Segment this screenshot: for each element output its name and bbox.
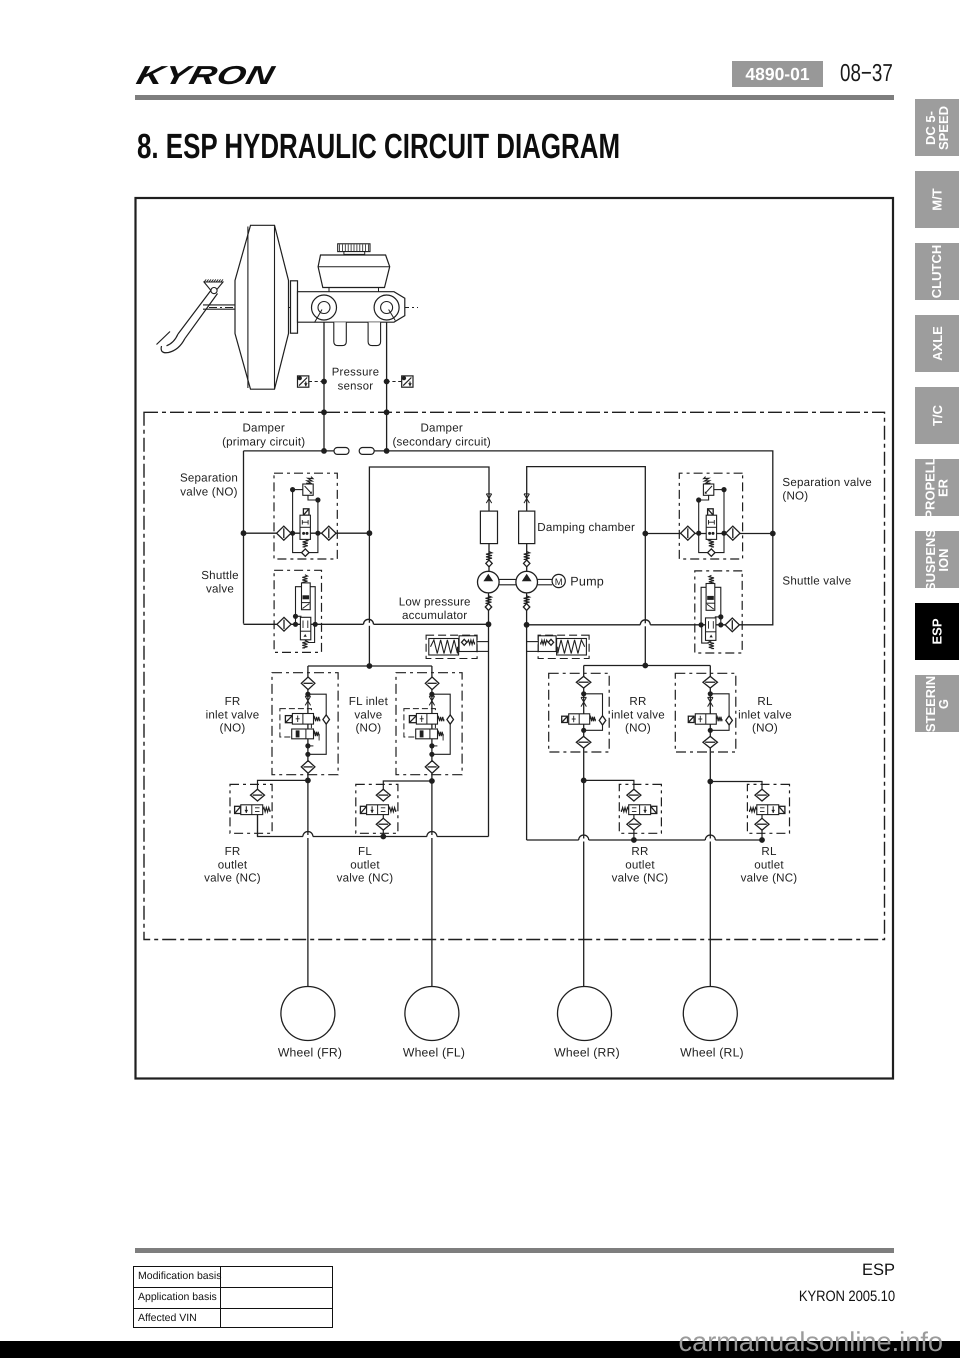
side tab AXLE bbox=[915, 315, 959, 372]
shuttle valve left bbox=[274, 570, 321, 652]
junction: right shuttle to suction bbox=[524, 622, 530, 628]
accumulator stubs bbox=[527, 641, 539, 643]
wire: left column bbox=[243, 451, 245, 624]
junction dots bbox=[721, 487, 726, 492]
junction dots bbox=[429, 692, 434, 697]
svg-text:inlet valve: inlet valve bbox=[738, 708, 792, 721]
relief valve bbox=[303, 484, 313, 495]
bypass wire bbox=[710, 694, 729, 731]
inlet valve dashed box bbox=[272, 673, 338, 775]
wire: left sep to damping chamber 1 bbox=[369, 467, 489, 533]
relief spring bbox=[306, 476, 313, 485]
HCU dashed enclosure bbox=[144, 412, 885, 939]
lower valve spring bbox=[438, 732, 444, 736]
side tab M/T bbox=[915, 171, 959, 228]
bottom bypass loop bbox=[699, 533, 724, 552]
accumulator piston bbox=[538, 636, 556, 652]
valve spring bbox=[716, 717, 722, 721]
valve body bbox=[569, 714, 590, 724]
brake pedal bbox=[178, 291, 218, 339]
bypass H wires bbox=[296, 587, 302, 625]
left bypass wire bbox=[723, 490, 725, 534]
pump 1 bbox=[478, 571, 500, 593]
svg-text:outlet: outlet bbox=[754, 858, 784, 871]
wire: FL main line bbox=[431, 666, 433, 987]
top filter diamond bbox=[576, 676, 591, 688]
upper valve body bbox=[416, 714, 437, 725]
wire: FR outlet branch bbox=[258, 780, 308, 789]
accumulator dashed box bbox=[426, 635, 477, 658]
lower valve body bbox=[292, 729, 314, 739]
svg-text:Shuttle valve: Shuttle valve bbox=[782, 575, 851, 588]
svg-text:Low pressure: Low pressure bbox=[399, 596, 471, 609]
bypass check diamond bbox=[726, 716, 733, 725]
wire: sensor right dashed stub bbox=[387, 381, 402, 383]
page number 08-37 bbox=[840, 60, 893, 87]
bypass check diamond bbox=[323, 715, 330, 724]
solenoid tab bbox=[708, 509, 714, 515]
top filter diamond bbox=[251, 789, 265, 801]
right bypass wire bbox=[317, 500, 319, 533]
left bypass wire bbox=[292, 490, 294, 534]
svg-text:M: M bbox=[555, 577, 563, 588]
svg-text:RR: RR bbox=[629, 695, 646, 708]
footer ESP label bbox=[695, 1261, 895, 1280]
filter diamond bbox=[725, 618, 739, 632]
relief valve bbox=[703, 484, 713, 495]
svg-text:(NO): (NO) bbox=[782, 490, 808, 503]
accumulator stubs bbox=[477, 641, 489, 643]
low pressure accumulator right bbox=[527, 635, 589, 658]
junction: primary damper bbox=[321, 448, 327, 454]
svg-text:Damping chamber: Damping chamber bbox=[537, 521, 635, 534]
bypass check diamond bbox=[447, 715, 454, 724]
junction: RR outlet to return bbox=[631, 837, 637, 843]
junction: primary sensor tee bbox=[321, 379, 327, 385]
lower valve spring bbox=[314, 732, 320, 736]
valve solenoid bbox=[651, 806, 657, 813]
wire: left shuttle line bbox=[244, 623, 489, 625]
valve solenoid bbox=[235, 806, 241, 813]
svg-text:RL: RL bbox=[761, 845, 777, 858]
separation valve dashed box bbox=[679, 473, 742, 559]
outlet valve dashed box bbox=[619, 784, 661, 833]
title bbox=[137, 129, 620, 164]
wire: mid vertical to front feed bbox=[368, 533, 370, 666]
svg-text:valve: valve bbox=[354, 708, 382, 721]
svg-text:Separation valve: Separation valve bbox=[782, 476, 872, 489]
svg-text:sensor: sensor bbox=[338, 381, 374, 393]
svg-text:inlet valve: inlet valve bbox=[206, 708, 260, 721]
damping chamber 2 bbox=[519, 511, 535, 543]
valve solenoid bbox=[360, 806, 366, 813]
svg-text:valve: valve bbox=[206, 583, 234, 596]
wire: FL outlet branch bbox=[383, 781, 432, 789]
valve spring bbox=[389, 808, 396, 812]
wire: right shuttle line bbox=[527, 534, 773, 625]
svg-text:outlet: outlet bbox=[350, 858, 380, 871]
lower valve spring bbox=[302, 640, 307, 648]
wire: right return line bbox=[527, 839, 762, 841]
watermark bbox=[443, 1326, 943, 1358]
svg-text:Wheel (FR): Wheel (FR) bbox=[278, 1046, 342, 1060]
shuttle valve dashed box bbox=[274, 570, 321, 652]
valve solenoid bbox=[688, 716, 694, 722]
valve body bbox=[241, 805, 263, 815]
side tab DC 5-SPEED bbox=[915, 99, 959, 156]
wire relief to left bypass bbox=[293, 489, 303, 491]
svg-text:(NO): (NO) bbox=[220, 722, 246, 735]
svg-text:valve (NC): valve (NC) bbox=[741, 872, 798, 885]
junction: rear feed tee bbox=[642, 663, 648, 669]
side tab PROPELLER bbox=[915, 459, 959, 516]
footer rule bbox=[135, 1248, 894, 1253]
svg-text:valve (NC): valve (NC) bbox=[612, 872, 669, 885]
junction dots bbox=[718, 622, 723, 627]
header rule bbox=[135, 95, 894, 100]
FR outlet valve (NC) bbox=[230, 784, 272, 836]
lower valve body bbox=[416, 729, 438, 739]
pump shaft bbox=[499, 578, 516, 580]
wire: right sep line left end bbox=[645, 533, 773, 535]
booster flange bbox=[291, 281, 298, 333]
check above damping chamber 2 bbox=[524, 494, 529, 503]
filter diamond left bbox=[726, 526, 740, 540]
svg-text:RL: RL bbox=[757, 695, 773, 708]
check above damping chamber 1 bbox=[486, 494, 491, 503]
upper valve solenoid bbox=[285, 716, 292, 723]
upper valve spring bbox=[709, 575, 714, 583]
wire: damper line right + down to right sep valve bbox=[374, 451, 773, 534]
wire: chamber1 to pump1 bbox=[488, 544, 490, 572]
junction dots bbox=[708, 691, 713, 696]
filter diamond left bbox=[277, 526, 291, 540]
svg-text:Damper: Damper bbox=[420, 422, 462, 435]
side tab SUSPENSION bbox=[915, 531, 959, 588]
accumulator dashed box bbox=[538, 635, 589, 658]
separation valve dashed box bbox=[274, 473, 337, 559]
valve body bbox=[695, 714, 716, 724]
top filter diamond bbox=[376, 789, 390, 801]
lower valve body bbox=[300, 617, 310, 640]
junction: primary at enclosure bbox=[321, 409, 327, 415]
bypass H wires bbox=[715, 587, 721, 625]
relief spring bbox=[703, 476, 710, 485]
inlet valve dashed box bbox=[549, 673, 610, 752]
wire: rear feed line bbox=[584, 665, 711, 667]
valve spring bottom bbox=[709, 539, 714, 547]
accumulator spring box bbox=[429, 639, 459, 656]
wire: chamber2 to pump2 bbox=[526, 544, 528, 572]
svg-text:(NO): (NO) bbox=[752, 722, 778, 735]
svg-text:accumulator: accumulator bbox=[402, 609, 467, 622]
wire to return bbox=[382, 815, 384, 837]
top filter diamond bbox=[703, 676, 718, 688]
svg-text:(secondary circuit): (secondary circuit) bbox=[392, 436, 491, 449]
svg-text:Shuttle: Shuttle bbox=[201, 569, 239, 582]
bottom filter diamond bbox=[627, 818, 641, 830]
upper valve spring bbox=[302, 575, 307, 583]
junction dots bbox=[290, 487, 295, 492]
svg-text:Wheel (RR): Wheel (RR) bbox=[554, 1046, 620, 1060]
wire to return bbox=[633, 815, 635, 840]
wheel FR bbox=[281, 987, 335, 1041]
shuttle valve dashed box bbox=[695, 571, 742, 653]
junction: secondary sensor tee bbox=[384, 379, 390, 385]
bypass check diamond bbox=[599, 716, 606, 725]
RR outlet valve (NC) bbox=[619, 784, 661, 840]
upper valve body bbox=[292, 714, 313, 725]
valve spring bbox=[590, 717, 596, 721]
wire: right mid vertical to rear feed bbox=[644, 534, 646, 666]
pressure sensor left bbox=[298, 376, 309, 387]
bypass check diamond bbox=[302, 549, 309, 556]
wheel RL bbox=[683, 987, 737, 1041]
side tab T/C bbox=[915, 387, 959, 444]
wire: pump1 suction down to left return bbox=[488, 593, 490, 837]
lower valve spring bbox=[709, 641, 714, 649]
wire: right sep to damping chamber 2 bbox=[527, 467, 646, 534]
wire: pump2 suction down to right return bbox=[526, 593, 528, 840]
top filter diamond bbox=[755, 789, 769, 801]
svg-text:Wheel (RL): Wheel (RL) bbox=[680, 1046, 744, 1060]
upper valve body bbox=[706, 584, 715, 611]
filter diamond bbox=[277, 617, 291, 631]
wire: MC secondary down bbox=[386, 322, 388, 451]
wire: MC primary down bbox=[323, 322, 325, 451]
motor M bbox=[552, 574, 565, 587]
damper secondary pill bbox=[359, 448, 374, 455]
wire: left separation line bbox=[244, 532, 370, 534]
centerline bbox=[209, 307, 418, 309]
junction: RL outlet to return bbox=[759, 837, 765, 843]
valve body bbox=[367, 805, 389, 815]
check on line bbox=[708, 697, 713, 706]
FR inlet valve (NO) bbox=[272, 673, 338, 775]
junction: right sep line ends bbox=[642, 531, 648, 537]
valve spring bbox=[750, 808, 757, 812]
inlet valve dashed box bbox=[396, 673, 462, 775]
svg-text:FL: FL bbox=[358, 845, 372, 858]
wire: left return line bbox=[258, 815, 489, 837]
wire relief to right bypass bbox=[308, 495, 318, 500]
separation valve left (NO) bbox=[274, 473, 337, 559]
bottom filter diamond bbox=[703, 736, 718, 748]
brake pedal bracket bbox=[204, 282, 223, 290]
junction: front feed tee bbox=[367, 663, 373, 669]
junction dots bbox=[305, 692, 310, 697]
wire: RR main line bbox=[583, 666, 585, 987]
valve body bbox=[629, 805, 651, 815]
valve spring bottom bbox=[303, 539, 308, 547]
junction: secondary at enclosure bbox=[384, 409, 390, 415]
junction: left sep line ends bbox=[241, 530, 247, 536]
upper valve body bbox=[302, 583, 311, 610]
wire relief to left bypass bbox=[714, 489, 724, 491]
bypass wire bbox=[432, 694, 450, 754]
KYRON logo bbox=[134, 62, 277, 88]
bottom bypass loop bbox=[293, 533, 318, 552]
wire: RR outlet branch bbox=[584, 780, 634, 791]
bottom filter diamond bbox=[755, 818, 769, 830]
accumulator spring box bbox=[557, 639, 587, 656]
valve solenoid bbox=[562, 716, 568, 722]
side tab STEERING bbox=[915, 675, 959, 732]
upper valve spring bbox=[438, 717, 444, 721]
outlet valve dashed box bbox=[747, 784, 789, 833]
side tab ESP bbox=[915, 603, 959, 660]
inner dashed box bbox=[404, 709, 436, 737]
wire: RL outlet branch bbox=[710, 782, 762, 792]
bottom filter diamond bbox=[376, 818, 390, 830]
FL inlet valve (NO) bbox=[396, 673, 462, 775]
inner dashed box bbox=[280, 709, 312, 737]
outlet valve dashed box bbox=[230, 784, 272, 833]
svg-text:Pump: Pump bbox=[570, 575, 604, 589]
master cylinder reservoir cap bbox=[338, 244, 370, 252]
upper valve spring bbox=[314, 717, 320, 721]
svg-text:valve (NO): valve (NO) bbox=[180, 486, 237, 499]
svg-text:FL inlet: FL inlet bbox=[349, 695, 389, 708]
master cylinder reservoir bbox=[318, 255, 390, 288]
wire: RL main line bbox=[709, 666, 711, 987]
svg-text:valve (NC): valve (NC) bbox=[337, 872, 394, 885]
footer model year bbox=[721, 1288, 895, 1305]
check on line bbox=[305, 696, 310, 705]
svg-text:Separation: Separation bbox=[180, 472, 238, 485]
bottom elbow bbox=[702, 625, 709, 643]
bottom black bar bbox=[0, 1341, 960, 1358]
accumulator piston bbox=[459, 636, 477, 652]
junction: secondary damper bbox=[384, 448, 390, 454]
valve spring bbox=[621, 808, 628, 812]
pump 2 bbox=[516, 571, 538, 593]
upper valve solenoid bbox=[409, 716, 416, 723]
valve spring bbox=[263, 808, 270, 812]
junction dots bbox=[581, 691, 586, 696]
solenoid tab bbox=[303, 509, 309, 515]
check on line bbox=[429, 696, 434, 705]
bottom filter diamond bbox=[425, 761, 439, 774]
wire relief to right bypass bbox=[699, 495, 709, 500]
top filter diamond bbox=[627, 789, 641, 801]
damping chamber 1 bbox=[480, 511, 497, 543]
svg-text:(NO): (NO) bbox=[625, 722, 651, 735]
svg-text:Wheel (FL): Wheel (FL) bbox=[403, 1046, 465, 1060]
svg-text:FR: FR bbox=[225, 845, 241, 858]
valve solenoid bbox=[779, 806, 785, 813]
inlet valve dashed box bbox=[675, 673, 736, 752]
bottom filter diamond bbox=[301, 761, 315, 774]
header code box 4890-01 bbox=[732, 61, 823, 87]
check on line bbox=[581, 697, 586, 706]
wire: front feed line bbox=[308, 665, 432, 667]
top filter diamond bbox=[425, 677, 439, 690]
low pressure accumulator left bbox=[426, 635, 488, 658]
outlet valve dashed box bbox=[356, 784, 398, 833]
wheel RR bbox=[558, 987, 612, 1041]
primary bore bbox=[312, 295, 337, 320]
footer table bbox=[133, 1266, 333, 1328]
svg-text:RR: RR bbox=[631, 845, 648, 858]
brake booster bbox=[235, 225, 289, 389]
FL outlet valve (NC) bbox=[356, 784, 398, 836]
lower valve body bbox=[706, 618, 716, 641]
pressure sensor right bbox=[402, 376, 413, 387]
wire: FR main line bbox=[307, 666, 309, 987]
diagram outer border bbox=[136, 198, 894, 1079]
secondary bore bbox=[374, 295, 399, 320]
svg-text:(NO): (NO) bbox=[355, 722, 381, 735]
wire: sensor left dashed stub bbox=[309, 381, 324, 383]
svg-text:outlet: outlet bbox=[218, 858, 248, 871]
bypass wire bbox=[584, 694, 603, 731]
junction: FL outlet to return bbox=[380, 834, 386, 840]
wire to return bbox=[761, 815, 763, 840]
svg-text:inlet valve: inlet valve bbox=[611, 708, 665, 721]
svg-text:valve (NC): valve (NC) bbox=[204, 872, 261, 885]
valve body bbox=[300, 515, 310, 539]
bottom filter diamond bbox=[576, 736, 591, 748]
shuttle valve right bbox=[695, 571, 742, 653]
junction dots bbox=[293, 622, 298, 627]
bypass check diamond bbox=[708, 549, 715, 556]
svg-text:(primary circuit): (primary circuit) bbox=[222, 436, 305, 449]
top filter diamond bbox=[301, 677, 315, 690]
filter diamond right bbox=[322, 526, 336, 540]
master cylinder outlet stubs bbox=[334, 322, 347, 345]
right bypass wire bbox=[698, 500, 700, 533]
master cylinder body bbox=[298, 292, 405, 323]
wire to return bbox=[257, 815, 259, 837]
filter diamond right bbox=[681, 526, 695, 540]
svg-text:Damper: Damper bbox=[242, 422, 284, 435]
svg-text:outlet: outlet bbox=[625, 858, 655, 871]
damper primary pill bbox=[334, 448, 349, 455]
wire: damper line left bbox=[244, 450, 335, 452]
svg-text:Pressure: Pressure bbox=[332, 367, 380, 379]
svg-text:FR: FR bbox=[225, 695, 241, 708]
RL inlet valve (NO) bbox=[675, 673, 736, 752]
separation valve right (NO) bbox=[679, 473, 742, 559]
junction: shuttle to suction bbox=[486, 621, 492, 627]
RL outlet valve (NC) bbox=[747, 784, 789, 840]
bypass wire bbox=[308, 694, 326, 754]
wheel FL bbox=[405, 987, 459, 1041]
valve body bbox=[706, 515, 716, 539]
booster pushrod bbox=[203, 304, 236, 306]
valve body bbox=[757, 805, 779, 815]
side tab CLUTCH bbox=[915, 243, 959, 300]
bottom elbow bbox=[308, 624, 315, 642]
RR inlet valve (NO) bbox=[549, 673, 610, 752]
